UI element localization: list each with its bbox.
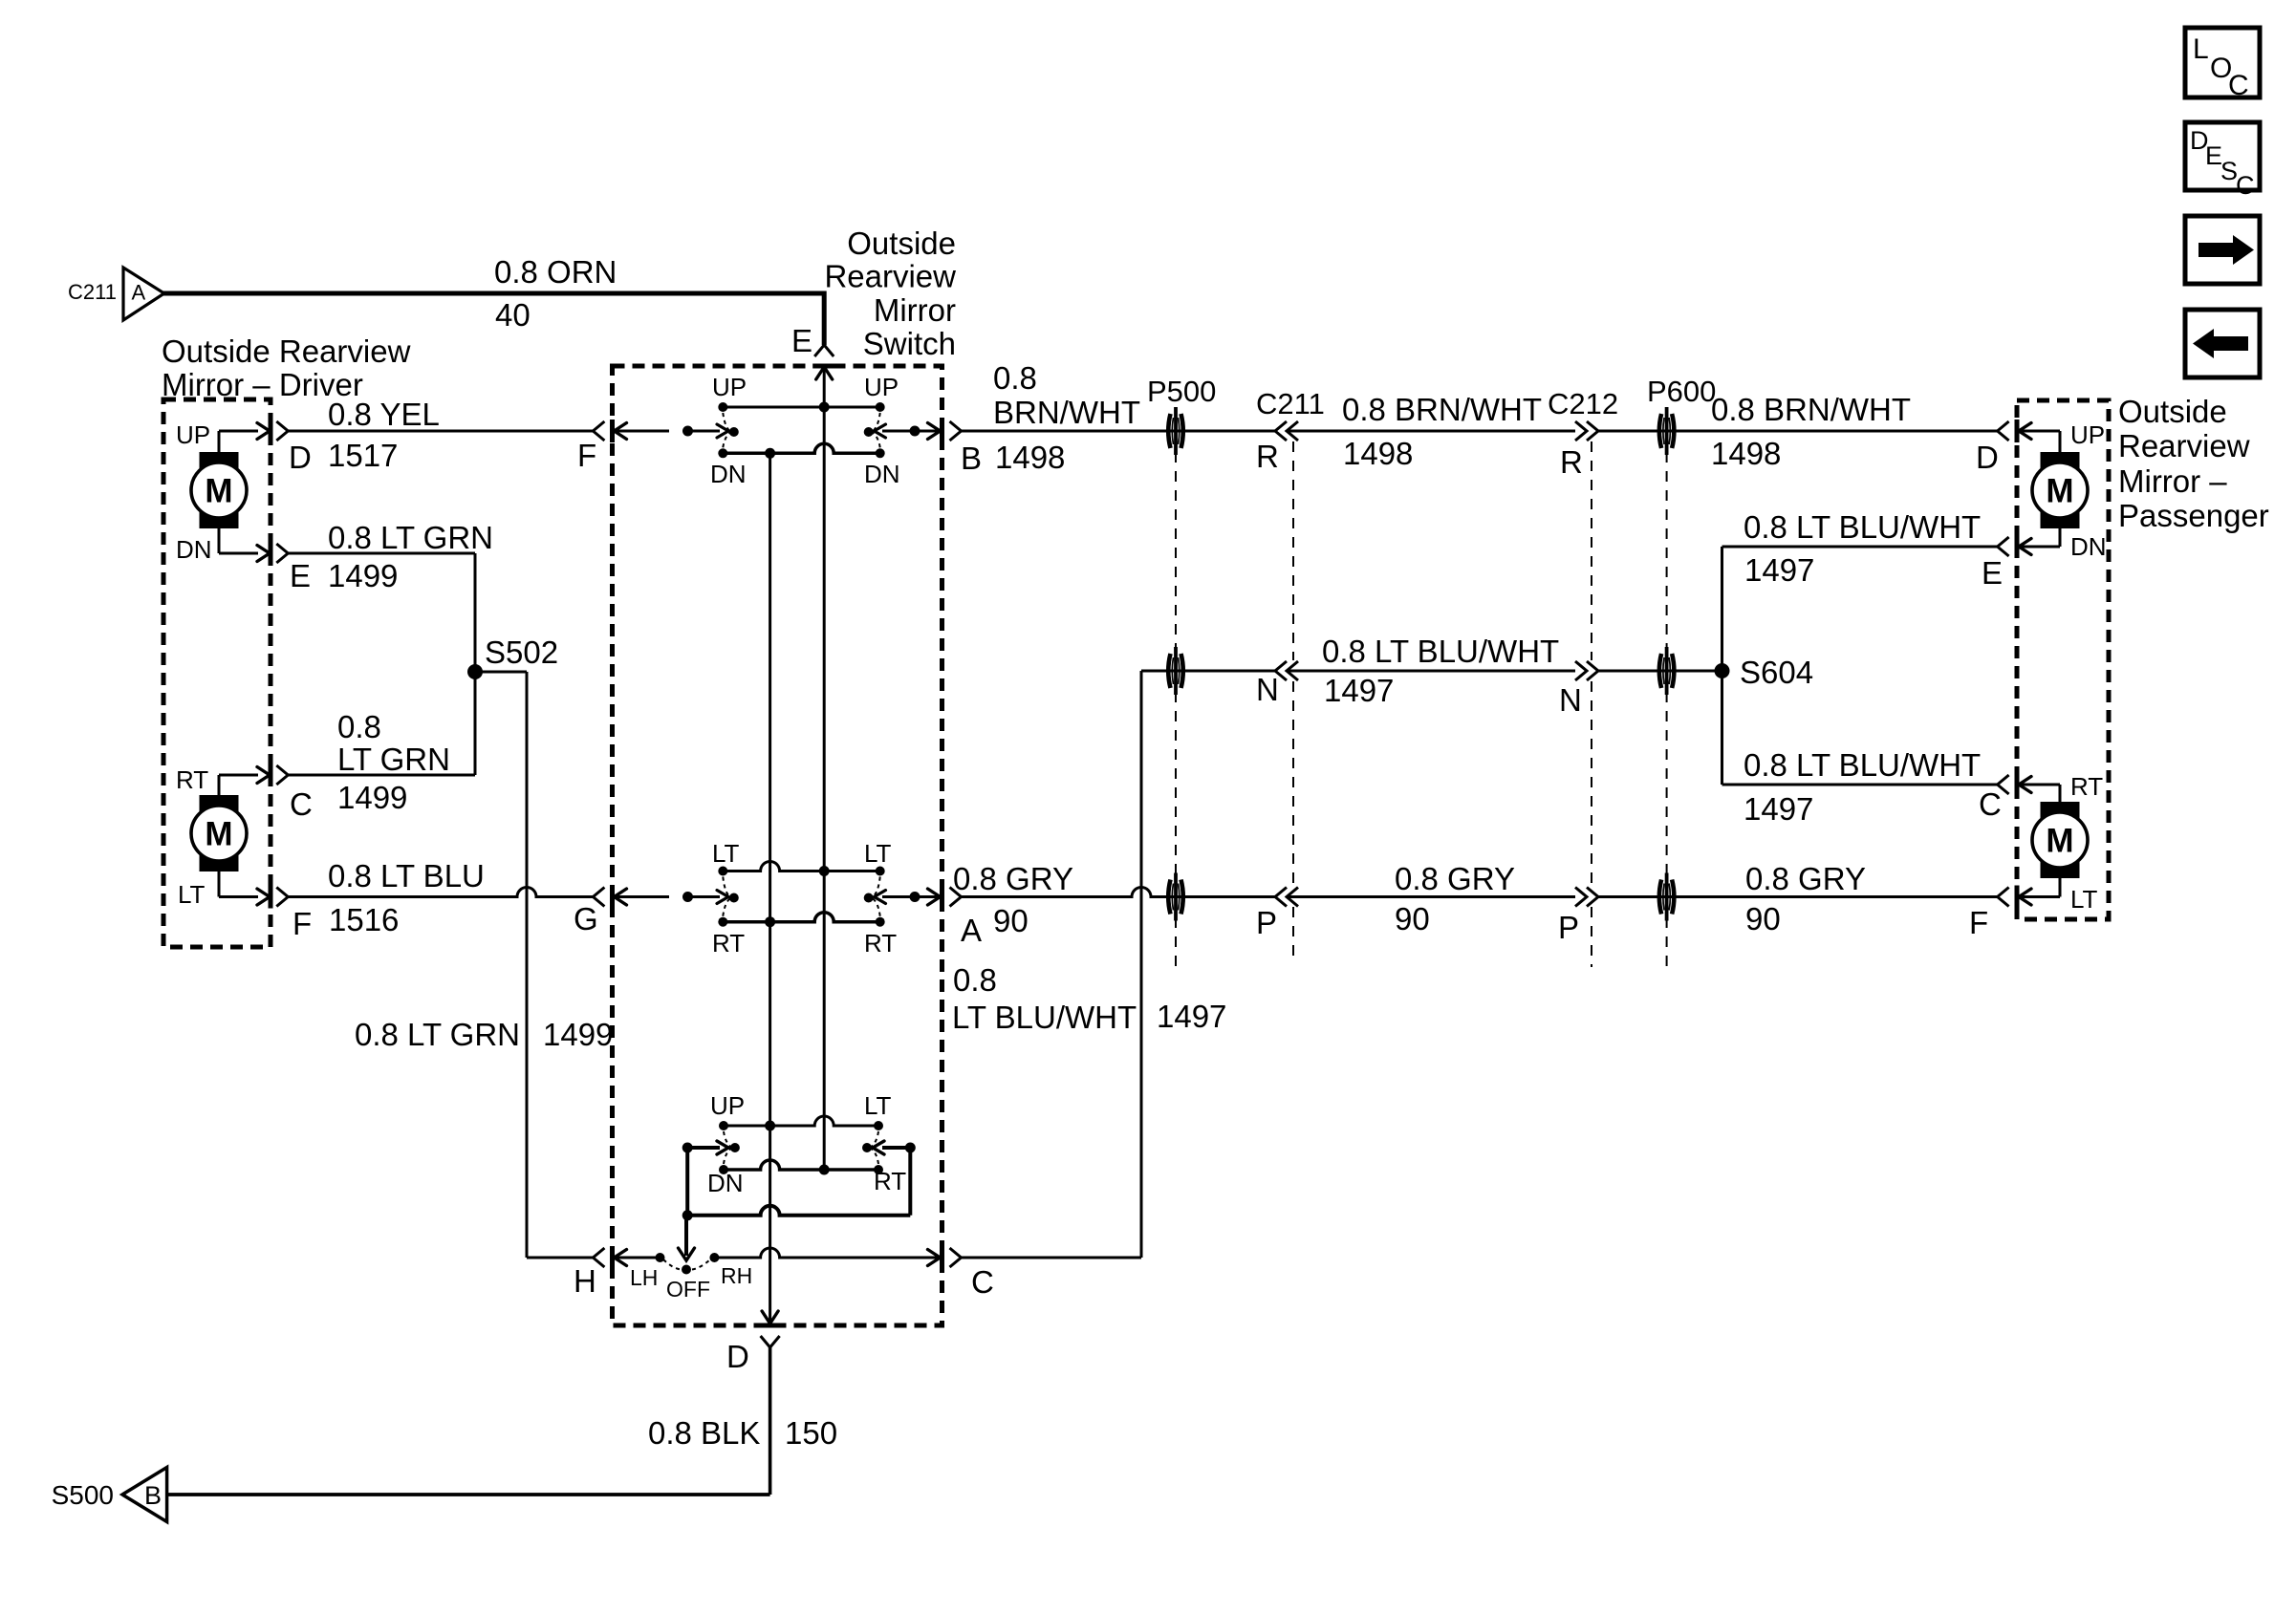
grommet P600 row P — [1659, 873, 1675, 921]
wire 0.8 LT BLU/WHT 1497 (riser to N row) — [1141, 671, 1275, 1258]
svg-text:0.8 BRN/WHT: 0.8 BRN/WHT — [1711, 392, 1911, 427]
switch group3 labels — [707, 1091, 906, 1197]
switch pin B — [915, 420, 982, 476]
svg-text:M: M — [2046, 473, 2073, 510]
svg-text:N: N — [1559, 682, 1582, 718]
svg-text:C: C — [290, 786, 313, 822]
svg-text:S500: S500 — [52, 1480, 114, 1510]
switch selector contacts LH OFF RH — [630, 1253, 752, 1302]
svg-text:Outside: Outside — [2118, 394, 2227, 429]
svg-text:E: E — [290, 558, 311, 593]
svg-text:0.8: 0.8 — [953, 962, 997, 998]
wire 0.8 LT GRN 1499 (driver E to splice S502) — [276, 520, 493, 672]
wire driver UP motor lead to pin D — [176, 420, 270, 453]
svg-text:RT: RT — [2070, 772, 2103, 801]
svg-text:1498: 1498 — [995, 440, 1065, 475]
switch contact bar LT (group2) — [723, 862, 879, 872]
motor M (driver mirror up/down) — [191, 452, 247, 528]
motor M (passenger mirror left/right) — [2032, 802, 2088, 878]
svg-text:1499: 1499 — [543, 1017, 613, 1052]
svg-text:N: N — [1256, 672, 1279, 707]
svg-text:1497: 1497 — [1324, 673, 1394, 708]
wire 0.8 LT BLU/WHT 1497 (S604 to passenger E) — [1722, 509, 2009, 785]
switch contact bar DN (group1) — [723, 443, 879, 453]
wire 0.8 ORN circuit 40 (C211-A to switch E) — [163, 291, 824, 346]
splice S502 — [467, 635, 558, 679]
svg-text:LT: LT — [178, 880, 206, 909]
svg-text:A: A — [961, 913, 982, 948]
svg-text:H: H — [574, 1263, 596, 1299]
svg-text:S502: S502 — [485, 635, 558, 670]
svg-text:0.8 BRN/WHT: 0.8 BRN/WHT — [1342, 392, 1542, 427]
switch contact bar DN/RT (group3) — [724, 1160, 878, 1170]
svg-text:Switch: Switch — [863, 326, 956, 361]
svg-text:RT: RT — [176, 765, 208, 794]
switch contact bar UP/LT (group3) — [724, 1116, 878, 1126]
svg-text:D: D — [289, 440, 312, 475]
svg-text:M: M — [205, 473, 232, 510]
svg-text:DN: DN — [176, 535, 212, 564]
label Outside Rearview Mirror - Passenger — [2118, 394, 2269, 533]
component box: Outside Rearview Mirror - Passenger — [2017, 400, 2109, 919]
svg-text:LT: LT — [2070, 885, 2098, 914]
svg-text:LT: LT — [712, 839, 740, 868]
splice S604 — [1715, 655, 1814, 690]
svg-text:DN: DN — [707, 1169, 744, 1197]
wire P600 to splice S604 — [1598, 670, 1722, 673]
wire driver LT motor lead to pin F — [178, 871, 270, 909]
connector C212 pin R (double chevron) — [1560, 421, 1598, 480]
svg-text:B: B — [144, 1481, 162, 1510]
svg-text:LT GRN: LT GRN — [337, 742, 450, 777]
svg-text:1498: 1498 — [1343, 436, 1413, 471]
connector C212 pin P (double chevron) — [1558, 888, 1598, 946]
label 0.8 LT GRN 1499 (vertical run) — [355, 1017, 613, 1052]
svg-text:Outside Rearview: Outside Rearview — [162, 334, 411, 369]
svg-text:B: B — [961, 441, 982, 476]
svg-text:D: D — [1976, 440, 1999, 475]
svg-text:D: D — [726, 1339, 749, 1374]
svg-text:UP: UP — [2070, 420, 2105, 449]
connector C212 pin N (double chevron) — [1559, 661, 1598, 718]
wire passenger LT motor lead to pin F — [2018, 877, 2098, 914]
switch group2 wiper dashed arcs — [723, 877, 879, 916]
component box: Outside Rearview Mirror Switch — [613, 366, 942, 1325]
wire passenger UP motor lead to pin D — [2018, 420, 2105, 453]
wire 0.8 LT BLU/WHT 1497 (C211 to C212, N) — [1287, 634, 1575, 708]
svg-text:C211: C211 — [1256, 387, 1325, 420]
svg-text:F: F — [292, 906, 312, 941]
switch pin F — [577, 420, 669, 473]
svg-text:Passenger: Passenger — [2118, 498, 2269, 533]
wire driver RT motor lead to pin C — [176, 765, 270, 796]
switch group1 wiper dashed arcs — [723, 413, 879, 447]
svg-text:E: E — [791, 323, 812, 358]
passenger connector pins D E C F (edge bars) — [2015, 420, 2020, 909]
label 0.8 BRN/WHT 1498 (segment B) — [993, 360, 1140, 475]
switch selector arrow (to OFF wiper) — [679, 1216, 695, 1260]
svg-text:0.8 GRY: 0.8 GRY — [1395, 861, 1515, 896]
switch group3 selector wires (to LH/RH wiper) — [687, 1141, 910, 1216]
switch pin G — [574, 886, 669, 937]
svg-text:90: 90 — [993, 903, 1029, 938]
svg-text:0.8 ORN: 0.8 ORN — [494, 254, 617, 290]
switch contact bar UP (group1) — [723, 406, 879, 409]
driver pin letters — [289, 440, 313, 941]
svg-text:1498: 1498 — [1711, 436, 1781, 471]
svg-text:0.8 LT GRN: 0.8 LT GRN — [328, 520, 493, 555]
svg-text:Mirror: Mirror — [874, 292, 956, 328]
wire driver DN motor lead to pin E — [176, 527, 270, 564]
wire 0.8 GRY 90 (P600 to passenger F) — [1598, 861, 2009, 936]
switch group3 contacts and dots — [682, 1121, 916, 1221]
svg-text:0.8 GRY: 0.8 GRY — [1745, 861, 1866, 896]
svg-text:UP: UP — [712, 373, 747, 401]
svg-text:L: L — [2193, 33, 2209, 65]
motor M (driver mirror left/right) — [191, 795, 247, 872]
grommet P600 row N — [1659, 647, 1675, 695]
svg-text:P: P — [1256, 905, 1277, 940]
switch group1 labels — [710, 373, 900, 488]
connector C211 pin N (double chevron) — [1256, 661, 1298, 707]
svg-text:1499: 1499 — [328, 558, 398, 593]
svg-text:DN: DN — [864, 460, 900, 488]
svg-text:E: E — [1982, 555, 2003, 591]
grommet P600 row D — [1659, 407, 1675, 455]
svg-text:LT: LT — [864, 839, 892, 868]
svg-text:C: C — [971, 1264, 994, 1300]
harness dashed line P600 — [1666, 452, 1668, 969]
svg-text:1497: 1497 — [1157, 999, 1226, 1034]
grommet P500 row A — [1168, 873, 1183, 921]
svg-text:0.8: 0.8 — [993, 360, 1037, 396]
svg-text:M: M — [205, 816, 232, 853]
wire 0.8 LT GRN 1499 (driver C to splice S502) — [276, 672, 475, 815]
wire 0.8 YEL 1517 (driver D to switch F) — [276, 397, 604, 473]
svg-text:UP: UP — [864, 373, 899, 401]
svg-text:0.8 LT BLU: 0.8 LT BLU — [328, 858, 485, 893]
switch group3 wiper dashed arcs — [724, 1131, 878, 1164]
svg-text:1517: 1517 — [328, 438, 398, 473]
label 0.8 LT BLU/WHT 1497 (below A) — [952, 962, 1226, 1035]
wire 0.8 BRN/WHT 1498 (P600 to passenger D) — [1598, 392, 2009, 471]
svg-text:1497: 1497 — [1744, 552, 1814, 588]
svg-text:OFF: OFF — [666, 1277, 710, 1302]
svg-text:G: G — [574, 901, 598, 936]
svg-text:DN: DN — [710, 460, 747, 488]
svg-text:RH: RH — [721, 1263, 752, 1288]
svg-text:S604: S604 — [1740, 655, 1813, 690]
svg-text:150: 150 — [785, 1415, 837, 1451]
svg-text:BRN/WHT: BRN/WHT — [993, 395, 1140, 430]
svg-text:Rearview: Rearview — [2118, 428, 2250, 463]
svg-text:R: R — [1256, 439, 1279, 474]
wire 0.8 LT GRN 1499 (S502 to switch H) — [475, 672, 604, 1267]
wire 0.8 BLK 150 (switch D to S500) — [167, 1347, 770, 1495]
driver connector pins D E C F (edge bars) — [269, 420, 273, 909]
wire switch RH to pin C — [714, 1248, 939, 1258]
wire 0.8 BRN/WHT 1498 (C211 to C212) — [1287, 392, 1575, 471]
svg-text:0.8: 0.8 — [337, 709, 381, 744]
legend box LOC — [2185, 28, 2260, 101]
switch pin A — [915, 886, 982, 949]
label Outside Rearview Mirror - Driver — [162, 334, 411, 402]
svg-text:90: 90 — [1395, 901, 1430, 936]
svg-text:0.8 LT BLU/WHT: 0.8 LT BLU/WHT — [1744, 747, 1981, 783]
passenger pin letters — [1969, 440, 2003, 940]
label 0.8 BLK 150 — [648, 1415, 837, 1451]
label C212 — [1548, 387, 1618, 420]
connector C211 pin R (double chevron) — [1256, 421, 1298, 474]
switch pin H — [574, 1246, 661, 1299]
svg-text:P500: P500 — [1147, 375, 1216, 408]
svg-text:40: 40 — [495, 297, 531, 333]
svg-text:DN: DN — [2070, 532, 2107, 561]
svg-text:0.8 LT BLU/WHT: 0.8 LT BLU/WHT — [1744, 509, 1981, 545]
wire passenger RT motor lead to pin C — [2018, 772, 2103, 803]
svg-text:1497: 1497 — [1744, 791, 1813, 827]
legend box arrow right — [2185, 216, 2260, 284]
switch group1 contacts and dots — [682, 402, 921, 459]
svg-text:RT: RT — [864, 929, 897, 958]
svg-text:UP: UP — [176, 420, 210, 449]
svg-text:R: R — [1560, 444, 1583, 480]
svg-text:RT: RT — [712, 929, 745, 958]
svg-text:UP: UP — [710, 1091, 745, 1120]
svg-text:C: C — [2236, 171, 2255, 200]
harness dashed line P500 — [1175, 452, 1177, 969]
switch contact bar RT (group2) — [723, 913, 879, 922]
legend box arrow left — [2185, 310, 2260, 377]
label Outside Rearview Mirror Switch — [824, 226, 956, 361]
svg-text:0.8 LT BLU/WHT: 0.8 LT BLU/WHT — [1322, 634, 1559, 669]
svg-text:0.8 GRY: 0.8 GRY — [953, 861, 1073, 896]
svg-text:0.8 BLK: 0.8 BLK — [648, 1415, 760, 1451]
grommet P500 row N — [1168, 647, 1183, 695]
svg-text:1499: 1499 — [337, 780, 407, 815]
connector C211 pin P (double chevron) — [1256, 888, 1298, 941]
component box: Outside Rearview Mirror - Driver — [163, 399, 271, 947]
svg-text:F: F — [1969, 905, 1988, 940]
svg-text:0.8 YEL: 0.8 YEL — [328, 397, 440, 432]
wire 0.8 BRN/WHT 1498 (switch B to P500) — [950, 421, 1276, 441]
svg-text:C211: C211 — [68, 280, 117, 304]
svg-text:RT: RT — [874, 1167, 906, 1195]
connector C211 terminal A (power feed triangle) — [68, 268, 164, 320]
svg-text:P: P — [1558, 910, 1579, 945]
svg-text:Mirror –: Mirror – — [2118, 463, 2227, 499]
svg-text:A: A — [132, 281, 146, 305]
svg-text:90: 90 — [1745, 901, 1781, 936]
switch group2 wiper arrows — [688, 891, 916, 904]
wire 0.8 LT BLU/WHT 1497 (S604 to passenger C) — [1722, 747, 2009, 827]
label C211 — [1256, 387, 1325, 420]
svg-text:C: C — [1979, 786, 2002, 822]
harness dashed line C211 — [1292, 441, 1294, 960]
switch group2 labels — [712, 839, 897, 958]
wire switch internal feed line (from E) — [823, 406, 826, 1170]
switch group2 contacts and dots — [682, 866, 921, 927]
node E (switch connector pin E) — [791, 323, 835, 409]
wire 0.8 GRY 90 (switch A to P500) — [950, 861, 1276, 938]
harness dashed line C212 — [1591, 441, 1592, 967]
label P600 — [1647, 375, 1716, 408]
switch pin D (ground out) — [726, 1311, 782, 1374]
svg-text:C: C — [2228, 70, 2249, 101]
wire 0.8 GRY 90 (C211 to C212, P) — [1287, 861, 1575, 936]
svg-text:M: M — [2046, 823, 2073, 860]
svg-text:Rearview: Rearview — [824, 259, 956, 294]
switch pin C — [928, 1246, 994, 1300]
wire 0.8 LT BLU/WHT 1497 (switch C to riser) — [950, 1248, 1142, 1267]
grommet P500 row B — [1168, 407, 1183, 455]
svg-text:Outside: Outside — [847, 226, 956, 261]
label 0.8 ORN — [494, 254, 617, 333]
svg-text:LT BLU/WHT: LT BLU/WHT — [952, 1000, 1137, 1035]
wire switch internal common line (to D) — [769, 453, 771, 1322]
svg-text:C212: C212 — [1548, 387, 1618, 420]
svg-text:F: F — [577, 438, 596, 473]
svg-text:P600: P600 — [1647, 375, 1716, 408]
svg-text:0.8 LT GRN: 0.8 LT GRN — [355, 1017, 520, 1052]
legend box DESC — [2185, 122, 2260, 200]
label P500 — [1147, 375, 1216, 408]
wire 0.8 LT BLU 1516 (driver F to switch G) — [276, 858, 604, 937]
wire passenger DN motor lead to pin E — [2018, 527, 2107, 561]
svg-text:1516: 1516 — [329, 902, 399, 937]
svg-text:LT: LT — [864, 1091, 892, 1120]
motor M (passenger mirror up/down) — [2032, 452, 2088, 528]
svg-text:LH: LH — [630, 1265, 658, 1290]
ground splice S500 terminal B (triangle) — [52, 1468, 167, 1522]
switch group1 wiper arrows — [688, 424, 916, 438]
